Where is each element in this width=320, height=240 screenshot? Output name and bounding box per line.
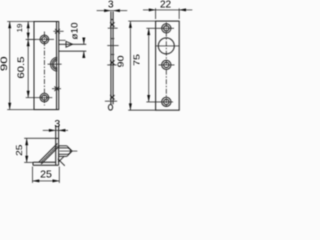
right view large hole centerline	[155, 45, 179, 47]
svg-text:90: 90	[0, 56, 9, 71]
dimension 19 / 60.5 shared line	[26, 22, 36, 98]
dimension 19/60.5 arrowheads	[27, 22, 30, 98]
dimension 90 right arrowheads	[129, 21, 132, 110]
svg-text:3: 3	[54, 118, 60, 130]
bend hole axis centerline	[60, 150, 78, 152]
left view hole centerline (vertical dash-dot)	[43, 32, 45, 106]
right view top hole	[162, 24, 171, 33]
right view vertical centerline	[165, 22, 167, 107]
dimension 3 section arrowheads	[49, 129, 66, 132]
X mark on bend edge top	[53, 29, 63, 33]
dimension 90 left arrowheads	[8, 22, 11, 110]
top hole circles	[40, 35, 49, 44]
dimension 22 arrowheads	[149, 8, 186, 11]
strip hole centerlines and ticks	[105, 28, 119, 101]
dimension 3 top arrowheads	[104, 9, 120, 12]
countersink cone (bend hole side projection)	[59, 40, 86, 51]
left view inner edge line (bend)	[56, 22, 58, 110]
dimension 3 (section)	[43, 129, 68, 131]
countersink arcs on bend edge	[51, 57, 58, 71]
dimension 25 horizontal	[33, 167, 60, 183]
bottom hole circles	[40, 93, 49, 102]
dimension 22	[143, 8, 192, 19]
dimension 75	[146, 28, 159, 102]
top hole crosshair horizontal	[26, 38, 54, 40]
arc centerline	[48, 63, 62, 65]
dimension 25 horizontal arrowheads	[33, 179, 60, 182]
dimension 90 (right view)	[128, 21, 155, 110]
dimension 25 vertical	[24, 138, 56, 162]
right view middle hole	[162, 60, 171, 69]
left view plate outline	[34, 22, 59, 110]
X mark on bend edge bottom	[52, 86, 61, 91]
dimension Ø10 arrowheads	[82, 38, 85, 59]
dimension Ø10	[83, 40, 85, 58]
bottom section view: vertical leg	[33, 126, 59, 166]
svg-text:60.5: 60.5	[17, 56, 27, 78]
dimension 25 vertical arrowheads	[25, 138, 28, 162]
right view top hole crosshair	[159, 27, 174, 29]
svg-text:90: 90	[117, 55, 127, 67]
right view bottom hole crosshair	[158, 101, 173, 103]
bottom hole crosshair horizontal	[26, 97, 53, 99]
right view plate	[156, 21, 180, 110]
right view middle hole crosshair	[159, 64, 175, 66]
svg-text:ø10: ø10	[70, 22, 81, 40]
gusset hatching	[40, 146, 57, 163]
strip bottom loop	[108, 105, 112, 111]
dimension 3 top	[97, 10, 128, 12]
right view large hole	[158, 38, 174, 54]
gusset diagonals	[39, 144, 58, 163]
strip hole marks	[110, 22, 115, 99]
svg-text:19: 19	[15, 24, 24, 33]
svg-text:22: 22	[160, 0, 172, 11]
dimension 75 arrowheads	[147, 28, 150, 102]
corner X marks	[58, 156, 65, 166]
svg-text:75: 75	[132, 54, 142, 66]
right view bottom hole	[162, 97, 171, 106]
middle strip (side view)	[108, 12, 113, 111]
svg-text:25: 25	[40, 169, 52, 181]
svg-text:25: 25	[15, 145, 24, 156]
section bullet (bend hole)	[59, 146, 72, 157]
dimension 90 left	[7, 22, 34, 110]
svg-text:3: 3	[108, 0, 114, 11]
base leg	[33, 161, 56, 163]
